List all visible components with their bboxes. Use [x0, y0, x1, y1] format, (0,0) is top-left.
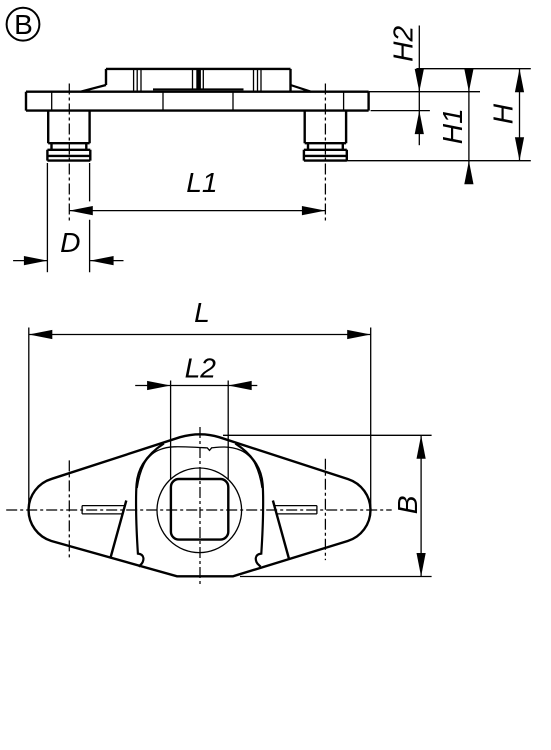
- extension line L right: [370, 328, 372, 510]
- svg-text:B: B: [391, 495, 423, 514]
- svg-text:D: D: [60, 226, 80, 258]
- dimension D line left part: [13, 260, 47, 262]
- arrow H1 down: [464, 69, 473, 92]
- right stud neck: [308, 143, 343, 150]
- arrow H down: [515, 137, 524, 161]
- dimension L1 line: [69, 210, 325, 212]
- boss top: [106, 68, 291, 70]
- dimension H line: [519, 69, 521, 161]
- outer wing contour: [29, 434, 371, 576]
- left tab: [82, 506, 125, 514]
- right stud centerline plan: [324, 459, 326, 560]
- arrow B up: [417, 435, 426, 459]
- dimension B line: [420, 435, 422, 576]
- boss left edge: [105, 69, 107, 85]
- right stud collar: [304, 150, 347, 161]
- left stud centerline plan: [68, 460, 70, 559]
- dimension D line right part: [90, 260, 123, 262]
- dimension H1 line: [468, 73, 470, 180]
- boss left chamfer: [81, 85, 107, 92]
- svg-text:H: H: [486, 103, 518, 124]
- svg-text:L1: L1: [186, 166, 217, 198]
- vertical centerline plan: [199, 427, 201, 586]
- right tab: [275, 506, 317, 514]
- svg-text:H2: H2: [387, 26, 419, 62]
- svg-text:H1: H1: [436, 108, 468, 144]
- arrow L1 left: [69, 206, 93, 215]
- recess circle: [157, 468, 242, 553]
- plate inner verticals (hole projection): [163, 92, 233, 111]
- extension line B top: [223, 434, 432, 436]
- view label badge B circle: [7, 8, 40, 41]
- boss center cluster: [193, 69, 204, 89]
- extension line stud bottom right: [346, 160, 531, 162]
- extension line L left: [28, 328, 30, 510]
- extension line D right: [89, 163, 91, 272]
- horizontal centerline plan: [6, 509, 392, 511]
- plate outline: [26, 92, 369, 111]
- arrow H2 down: [415, 69, 424, 92]
- left stud neck: [52, 143, 87, 150]
- square hole: [171, 479, 228, 540]
- right stud body: [305, 111, 346, 144]
- boss right chamfer: [291, 85, 312, 92]
- arrow L left: [29, 330, 53, 339]
- arrow B down: [417, 553, 426, 577]
- extension line D left: [46, 163, 48, 272]
- extension line L2 right: [227, 381, 229, 480]
- arrow L right: [347, 330, 371, 339]
- boss tray line: [153, 88, 244, 90]
- arrow L2 left-outside: [147, 381, 171, 390]
- right stud centerline: [324, 84, 326, 223]
- left stud centerline: [68, 84, 70, 223]
- boss arch left leg: [136, 443, 164, 566]
- boss right edge: [289, 69, 291, 92]
- svg-text:L: L: [194, 296, 210, 328]
- dimension H2 line: [418, 26, 420, 146]
- extension line boss top right: [416, 68, 530, 70]
- boss arch right leg: [235, 443, 263, 566]
- arrow L1 right: [302, 206, 326, 215]
- extension line plate bottom right: [371, 110, 430, 112]
- arrow H2 up: [415, 111, 424, 135]
- svg-text:L2: L2: [185, 352, 217, 384]
- boss inner vertical lines right group: [254, 69, 262, 92]
- dimension L2 line: [135, 385, 257, 387]
- svg-text:B: B: [14, 9, 33, 40]
- extension line plate top right: [369, 91, 480, 93]
- wing tip projection lines: [52, 92, 344, 111]
- extension line L2 left: [170, 381, 172, 480]
- arrow H1 up: [464, 161, 473, 185]
- arrow D left-outside: [24, 256, 48, 265]
- left stud collar: [47, 150, 90, 161]
- dimension L line: [29, 334, 371, 336]
- left stud body: [48, 111, 89, 144]
- arrow H up: [515, 69, 524, 93]
- wing root edge left: [110, 501, 126, 559]
- arrow L2 right-outside: [228, 381, 252, 390]
- wing root edge right: [273, 501, 289, 559]
- extension line B bottom: [240, 576, 432, 578]
- arrow D right-outside: [90, 256, 114, 265]
- boss inner vertical lines left pair: [134, 69, 141, 92]
- scallop blend arc with seam notch: [137, 447, 262, 488]
